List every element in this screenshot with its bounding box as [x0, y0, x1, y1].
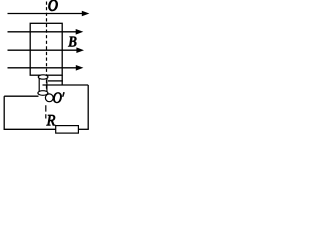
axis OO' (dashed rotation axis, upper part)	[46, 2, 48, 98]
wire: coil right corner down to circuit top	[61, 75, 63, 85]
wire: circuit left edge	[3, 96, 5, 130]
wire: brush from upper slip ring to connector	[48, 80, 63, 82]
slip ring upper ellipse	[38, 75, 48, 79]
B field line 3 (arrow)	[8, 47, 85, 53]
wire: circuit bottom right segment	[78, 128, 88, 130]
rectangular coil	[30, 23, 62, 75]
wire: circuit right edge	[87, 85, 89, 129]
B field line 1 (arrow)	[8, 11, 90, 17]
slip ring cylinder walls	[39, 77, 47, 93]
wire: circuit top edge (brush to right edge)	[43, 84, 89, 86]
B field line 4 (arrow)	[8, 65, 84, 71]
wire: circuit bottom left segment	[4, 128, 56, 130]
label B (field)	[68, 37, 77, 47]
slip ring lower ellipse	[38, 91, 48, 96]
axis OO' (dashed rotation axis, lower part)	[45, 103, 47, 119]
junction circle at O'	[45, 94, 53, 102]
node label O'	[53, 92, 64, 103]
resistor R box	[56, 126, 79, 134]
wire: left brush wire to lower slip ring	[4, 95, 38, 97]
node label O	[49, 0, 58, 11]
B field line 2 (arrow)	[8, 29, 84, 35]
label R (resistor)	[46, 115, 55, 125]
